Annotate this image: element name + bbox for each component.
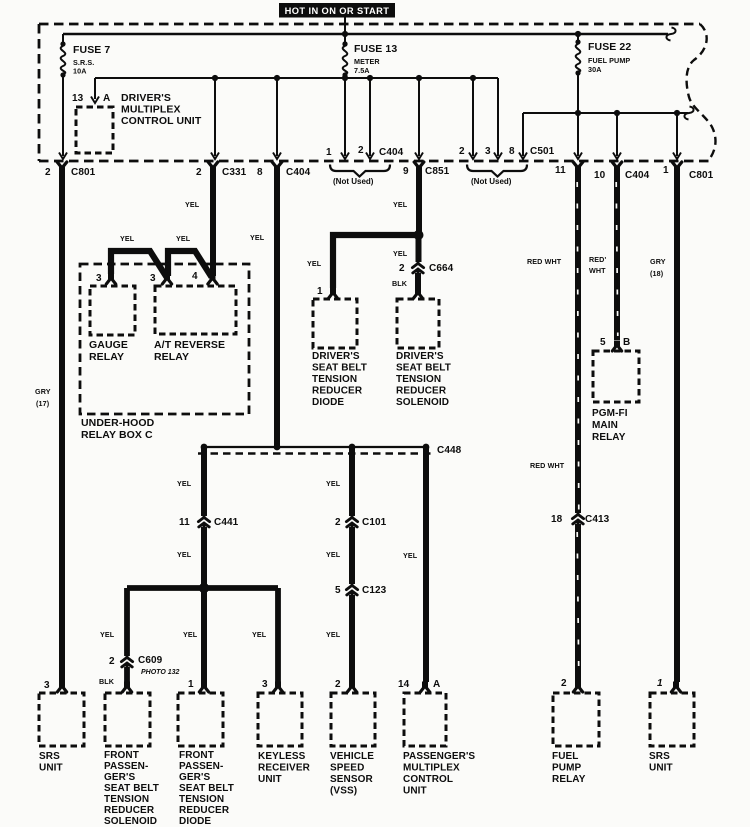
passenger's multiplex control unit (dashed box)	[403, 693, 475, 797]
svg-text:RELAY: RELAY	[154, 351, 189, 363]
svg-text:SRS: SRS	[649, 751, 670, 762]
svg-text:YEL: YEL	[393, 200, 408, 209]
wire YEL: C448 down to C101	[326, 447, 352, 516]
svg-text:1: 1	[326, 147, 332, 158]
fuse box wavy right edge	[687, 24, 716, 161]
svg-text:KEYLESS: KEYLESS	[258, 751, 306, 762]
svg-text:2: 2	[335, 517, 341, 528]
svg-text:TENSION: TENSION	[104, 794, 149, 805]
bracket not used C501	[467, 165, 527, 187]
wire: drop to C331 pin 2	[211, 75, 219, 159]
svg-text:C101: C101	[362, 517, 387, 528]
svg-text:DRIVER'S: DRIVER'S	[312, 351, 360, 362]
node: seat belt branch junction	[414, 230, 424, 240]
wire RED/WHT: C404 pin 10 down to PGM-FI main relay	[589, 172, 618, 340]
svg-text:2: 2	[399, 263, 405, 274]
svg-text:2: 2	[196, 167, 202, 178]
wire: main bus from fuse 7 to right break	[63, 33, 668, 35]
wire: drop to C501 pin 2 (not used)	[469, 75, 477, 159]
wire RED/WHT: C413 down to fuel pump relay pin 2	[577, 524, 579, 682]
wire YEL: branch to driver's seat belt tension reducer diode	[307, 235, 416, 288]
wire YEL: C101 down to C123	[326, 527, 352, 584]
svg-text:10: 10	[594, 170, 606, 181]
svg-text:5: 5	[600, 337, 606, 348]
svg-text:C404: C404	[625, 170, 650, 181]
svg-text:RELAY: RELAY	[89, 351, 124, 363]
svg-text:C331: C331	[222, 167, 247, 178]
svg-text:C413: C413	[585, 514, 610, 525]
svg-text:BLK: BLK	[392, 279, 408, 288]
svg-text:SOLENOID: SOLENOID	[396, 397, 449, 408]
svg-text:DRIVER'S: DRIVER'S	[121, 92, 171, 104]
svg-text:2: 2	[459, 146, 465, 157]
fork terminal gauge relay pin 3	[96, 273, 116, 284]
svg-text:WHT: WHT	[589, 266, 606, 275]
svg-text:REDUCER: REDUCER	[104, 805, 155, 816]
wire BLK: C609 to front passenger solenoid	[99, 667, 127, 686]
node: keyless branch junction	[199, 583, 209, 593]
svg-text:UNIT: UNIT	[649, 763, 673, 774]
svg-text:A/T REVERSE: A/T REVERSE	[154, 339, 225, 351]
wire: distribution line y78	[95, 77, 498, 79]
svg-text:YEL: YEL	[177, 479, 192, 488]
driver's seat belt tension reducer solenoid (dashed box)	[396, 299, 451, 408]
fork terminal front passenger diode pin 1	[188, 679, 209, 692]
fuel pump relay (dashed box)	[552, 693, 599, 785]
svg-text:(17): (17)	[36, 399, 50, 408]
svg-text:REDUCER: REDUCER	[396, 386, 447, 397]
svg-text:C851: C851	[425, 166, 450, 177]
svg-text:SEAT BELT: SEAT BELT	[179, 783, 234, 794]
PGM-FI main relay (dashed box)	[592, 351, 639, 443]
SRS unit right (dashed box)	[649, 693, 694, 774]
wire: distribution line y113	[523, 112, 688, 114]
svg-text:3: 3	[150, 273, 156, 284]
wire: fuse 22 down to pin 11	[574, 73, 582, 159]
fuse F7 (S.R.S. 10A)	[60, 34, 110, 78]
svg-text:PASSEN-: PASSEN-	[104, 761, 148, 772]
svg-text:5: 5	[335, 585, 341, 596]
connector labels along fuse box bottom	[45, 165, 714, 181]
wire: drop to C851 pin 9	[415, 75, 423, 159]
svg-text:DRIVER'S: DRIVER'S	[396, 351, 444, 362]
vehicle speed sensor VSS (dashed box)	[330, 693, 375, 797]
svg-text:C501: C501	[530, 146, 555, 157]
svg-text:GER'S: GER'S	[179, 772, 210, 783]
svg-text:PGM-FI: PGM-FI	[592, 408, 628, 419]
fork terminal keyless receiver pin 3	[262, 679, 283, 692]
svg-text:PUMP: PUMP	[552, 763, 582, 774]
wire: drop to C501 pin 8 (not used)	[519, 113, 527, 159]
svg-text:BLK: BLK	[99, 677, 115, 686]
wire YEL: C404 pin 8 down to C448 node	[250, 172, 277, 447]
svg-text:YEL: YEL	[177, 550, 192, 559]
svg-text:YEL: YEL	[326, 550, 341, 559]
wire: header drop to bus	[344, 17, 346, 44]
svg-text:SEAT BELT: SEAT BELT	[312, 363, 367, 374]
fork terminal C801 pin 2	[57, 162, 67, 173]
fuse F13 (METER 7.5A)	[342, 41, 397, 77]
fork terminal at solenoid	[413, 288, 422, 299]
svg-text:C664: C664	[429, 263, 454, 274]
svg-text:3: 3	[44, 680, 50, 691]
svg-text:MAIN: MAIN	[592, 420, 618, 431]
fork terminal fuse box pin 11	[573, 162, 583, 173]
svg-text:3: 3	[96, 273, 102, 284]
svg-text:(18): (18)	[650, 269, 664, 278]
svg-text:PASSEN-: PASSEN-	[179, 761, 223, 772]
svg-text:C448: C448	[437, 445, 462, 456]
svg-text:DIODE: DIODE	[312, 397, 344, 408]
wire: branch bar	[127, 585, 278, 591]
node: bus / fuse13 junction	[342, 31, 348, 37]
svg-text:METER: METER	[354, 57, 380, 66]
svg-text:YEL: YEL	[393, 249, 408, 258]
svg-text:C123: C123	[362, 585, 387, 596]
fork terminal A/T reverse relay pin 3	[150, 273, 172, 284]
wire YEL: C441 down to branch junction	[177, 527, 204, 588]
svg-text:GAUGE: GAUGE	[89, 339, 128, 351]
inline connector C664 pin 2	[399, 260, 454, 275]
svg-text:GRY: GRY	[650, 257, 666, 266]
fork terminal at SRS unit pin 3	[44, 680, 67, 692]
inline connector C609 pin 2	[109, 654, 179, 676]
svg-text:(VSS): (VSS)	[330, 786, 357, 797]
svg-text:YEL: YEL	[100, 630, 115, 639]
svg-text:2: 2	[561, 678, 567, 689]
svg-text:MULTIPLEX: MULTIPLEX	[121, 103, 181, 115]
under-hood relay box C (dashed box)	[80, 264, 249, 441]
wire YEL: left branch down to C609	[100, 588, 127, 656]
svg-text:RECEIVER: RECEIVER	[258, 763, 311, 774]
svg-text:(Not Used): (Not Used)	[333, 177, 374, 186]
labels C501 pins 2,3,8	[459, 146, 555, 157]
svg-text:1: 1	[188, 679, 194, 690]
svg-text:RED WHT: RED WHT	[527, 257, 562, 266]
svg-text:8: 8	[257, 167, 263, 178]
svg-text:A: A	[103, 93, 110, 104]
svg-text:B: B	[623, 337, 630, 348]
fork terminal SRS unit right	[657, 678, 681, 692]
svg-text:SRS: SRS	[39, 751, 60, 762]
wire: drop to C501 pin 3 (not used)	[494, 78, 502, 159]
svg-text:SENSOR: SENSOR	[330, 774, 374, 785]
svg-text:GER'S: GER'S	[104, 772, 135, 783]
svg-text:10A: 10A	[73, 67, 87, 76]
svg-text:YEL: YEL	[185, 200, 200, 209]
fork terminal VSS pin 2	[335, 679, 357, 692]
svg-text:TENSION: TENSION	[312, 374, 357, 385]
svg-text:(Not Used): (Not Used)	[471, 177, 512, 186]
inline connector C123 pin 5	[335, 582, 387, 597]
node/connector C448 distribution line	[198, 444, 462, 456]
svg-text:TENSION: TENSION	[179, 794, 224, 805]
svg-text:PASSENGER'S: PASSENGER'S	[403, 751, 475, 762]
svg-text:GRY: GRY	[35, 387, 51, 396]
bracket not used C404	[330, 165, 390, 187]
svg-text:FUEL: FUEL	[552, 751, 579, 762]
svg-text:HOT IN ON OR START: HOT IN ON OR START	[285, 6, 390, 16]
svg-text:C801: C801	[689, 170, 714, 181]
fork terminal multiplex pin 14/A	[398, 679, 440, 692]
fork terminal C404 pin 8	[272, 162, 282, 173]
wire break symbol right end of y113 line	[684, 107, 693, 120]
svg-text:UNIT: UNIT	[39, 763, 63, 774]
svg-text:1: 1	[317, 286, 323, 297]
svg-text:A: A	[433, 679, 440, 690]
inline connector C101 pin 2	[335, 514, 387, 529]
wire: fuse 13 down to C404 pin 1 (not used)	[341, 75, 349, 159]
wire YEL: C331 pin 2 down to A/T reverse relay pin 4	[185, 172, 213, 276]
A/T reverse relay (dashed box)	[154, 286, 236, 363]
inline connector C441 pin 11	[179, 514, 239, 529]
svg-text:C404: C404	[286, 167, 311, 178]
svg-text:C801: C801	[71, 167, 96, 178]
svg-text:YEL: YEL	[120, 234, 135, 243]
svg-text:YEL: YEL	[252, 630, 267, 639]
svg-text:YEL: YEL	[326, 479, 341, 488]
fuse box dashed border left	[38, 24, 41, 161]
svg-text:SEAT BELT: SEAT BELT	[396, 363, 451, 374]
inline connector C413 pin 18	[551, 511, 610, 526]
svg-text:YEL: YEL	[326, 630, 341, 639]
svg-text:1: 1	[657, 678, 663, 689]
fork terminal C851 pin 9	[414, 162, 424, 173]
wire YEL: A/T reverse relay pin 4 to pin 3 jumper	[168, 234, 212, 277]
svg-text:FRONT: FRONT	[104, 750, 139, 761]
wire YEL: C851 pin 9 down to junction	[393, 172, 419, 235]
wire YEL: center continues to front passenger diode pin 1	[183, 588, 204, 682]
svg-text:YEL: YEL	[403, 551, 418, 560]
front passenger's seat belt tension reducer solenoid (dashed box)	[104, 693, 159, 827]
wire: fuse 7 down to connector C801 pin 2	[59, 75, 67, 159]
svg-text:SPEED: SPEED	[330, 763, 364, 774]
driver's seat belt tension reducer diode (dashed box)	[312, 299, 367, 408]
svg-text:FRONT: FRONT	[179, 750, 214, 761]
svg-text:2: 2	[109, 656, 115, 667]
svg-text:PHOTO 132: PHOTO 132	[141, 669, 179, 676]
wire break symbol right end of bus	[666, 28, 675, 41]
svg-text:2: 2	[45, 167, 51, 178]
wire GRY(18): C801 pin 1 down to SRS unit	[650, 172, 677, 682]
svg-text:RELAY: RELAY	[592, 432, 626, 443]
svg-text:REDUCER: REDUCER	[312, 386, 363, 397]
svg-text:RED': RED'	[589, 255, 606, 264]
wire: drop to C404 pin 8	[273, 75, 281, 159]
svg-text:FUEL PUMP: FUEL PUMP	[588, 56, 630, 65]
keyless receiver unit (dashed box)	[258, 693, 311, 785]
fork terminal A/T reverse relay pin 4	[192, 271, 217, 284]
svg-text:REDUCER: REDUCER	[179, 805, 230, 816]
svg-text:3: 3	[485, 146, 491, 157]
wire YEL: C448 down to passenger's multiplex control unit	[403, 447, 426, 682]
svg-text:VEHICLE: VEHICLE	[330, 751, 374, 762]
svg-text:RED WHT: RED WHT	[530, 461, 565, 470]
svg-text:UNIT: UNIT	[258, 774, 282, 785]
fuse F22 (FUEL PUMP 30A)	[575, 34, 631, 76]
svg-text:11: 11	[555, 165, 566, 176]
fuse box dashed border top	[39, 23, 700, 26]
svg-text:CONTROL UNIT: CONTROL UNIT	[121, 115, 202, 127]
svg-text:1: 1	[663, 165, 669, 176]
svg-text:18: 18	[551, 514, 563, 525]
wire YEL: A/T reverse relay pin 3 to gauge relay pin 3 jumper	[111, 234, 167, 277]
svg-text:YEL: YEL	[250, 233, 265, 242]
svg-text:4: 4	[192, 271, 198, 282]
wire BLK: C664 to solenoid	[392, 273, 418, 290]
svg-text:9: 9	[403, 166, 409, 177]
svg-text:C609: C609	[138, 655, 163, 666]
svg-text:YEL: YEL	[183, 630, 198, 639]
svg-text:2: 2	[358, 145, 364, 156]
svg-text:2: 2	[335, 679, 341, 690]
wire YEL: C123 down to VSS pin 2	[326, 595, 352, 682]
fork terminal PGM-FI main relay pin 5/B	[600, 337, 630, 351]
svg-text:FUSE 13: FUSE 13	[354, 43, 397, 55]
fork terminal diode pin 1	[317, 286, 338, 299]
fork terminal C801 pin 1	[672, 162, 682, 173]
wire GRY(17): C801 pin 2 down to SRS unit	[35, 172, 62, 682]
svg-text:UNIT: UNIT	[403, 786, 427, 797]
svg-text:3: 3	[262, 679, 268, 690]
svg-text:11: 11	[179, 517, 190, 528]
wire: drop to driver's multiplex control unit pin 13	[91, 78, 99, 103]
svg-text:YEL: YEL	[307, 259, 322, 268]
wire RED/WHT: pin 11 down to C413	[527, 172, 579, 513]
svg-text:RELAY: RELAY	[552, 774, 586, 785]
svg-text:C404: C404	[379, 147, 404, 158]
svg-text:14: 14	[398, 679, 410, 690]
svg-text:YEL: YEL	[176, 234, 191, 243]
svg-text:FUSE 7: FUSE 7	[73, 44, 110, 56]
svg-text:MULTIPLEX: MULTIPLEX	[403, 763, 460, 774]
driver's multiplex control unit (dashed box)	[72, 92, 202, 153]
svg-text:FUSE 22: FUSE 22	[588, 41, 631, 53]
svg-text:30A: 30A	[588, 65, 602, 74]
header label HOT IN ON OR START	[279, 3, 395, 18]
gauge relay (dashed box)	[89, 286, 135, 363]
wire YEL: right branch down to keyless receiver pin 3	[252, 588, 278, 682]
svg-text:CONTROL: CONTROL	[403, 774, 453, 785]
fork terminal C331 pin 2	[208, 162, 218, 173]
svg-text:RELAY BOX C: RELAY BOX C	[81, 429, 153, 441]
svg-text:SOLENOID: SOLENOID	[104, 816, 157, 827]
labels C404 pins 1,2	[326, 145, 404, 158]
wire YEL: junction down to C664	[393, 235, 419, 262]
svg-text:UNDER-HOOD: UNDER-HOOD	[81, 417, 155, 429]
wire: drop to C404 pin 10	[613, 110, 621, 159]
front passenger's seat belt tension reducer diode (dashed box)	[178, 693, 234, 827]
wire: drop to C404 pin 2 (not used)	[366, 75, 374, 159]
svg-text:7.5A: 7.5A	[354, 66, 370, 75]
wire YEL: C448 down to C441	[177, 447, 204, 516]
node: bus / fuse22 junction	[575, 31, 581, 37]
svg-text:C441: C441	[214, 517, 239, 528]
svg-text:SEAT BELT: SEAT BELT	[104, 783, 159, 794]
svg-text:TENSION: TENSION	[396, 374, 441, 385]
fork terminal fuel pump relay pin 2	[561, 678, 583, 692]
svg-text:13: 13	[72, 93, 84, 104]
fuse box dashed border bottom	[39, 160, 711, 163]
fork terminal C404 pin 10	[612, 162, 622, 173]
svg-text:DIODE: DIODE	[179, 816, 211, 827]
fork terminal front passenger solenoid	[122, 682, 131, 693]
SRS unit left (dashed box)	[39, 693, 84, 774]
svg-text:8: 8	[509, 146, 515, 157]
wire: drop to C801 pin 1	[673, 110, 681, 159]
